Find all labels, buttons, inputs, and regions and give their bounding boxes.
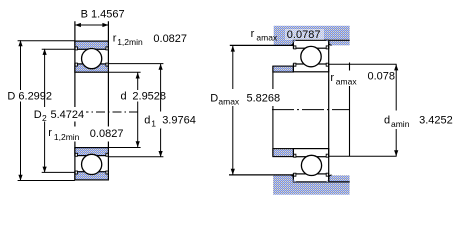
shaft shoulder strip top <box>273 66 294 72</box>
svg-text:0.0787: 0.0787 <box>287 29 321 41</box>
arrow D bottom <box>18 175 22 181</box>
svg-text:amin: amin <box>391 119 410 129</box>
housing block bottom <box>273 175 350 194</box>
d1 extension top <box>108 63 163 65</box>
svg-text:1: 1 <box>151 119 156 129</box>
svg-text:0.0827: 0.0827 <box>153 33 187 45</box>
housing seat line bottom <box>294 181 350 183</box>
chamfer corner bottom-left (blue showing) <box>293 179 296 182</box>
seal notch inner-left <box>75 63 77 66</box>
seal notch inner-left bottom <box>75 153 77 156</box>
fillet ra top-left <box>290 42 293 45</box>
dimension D2 line <box>44 49 46 173</box>
svg-text:amax: amax <box>218 97 240 107</box>
arrow d1 top <box>159 64 163 70</box>
ball top section <box>82 49 102 69</box>
chamfer corner top-right (blue showing) <box>326 40 329 43</box>
arrow d1 bottom <box>159 151 163 157</box>
bearing outer ring bottom (right fig) <box>293 174 328 182</box>
D2 extension top <box>42 48 75 50</box>
housing block top <box>274 26 350 46</box>
seal notch <box>294 63 296 66</box>
svg-text:3.4252: 3.4252 <box>419 114 453 126</box>
d1 extension bottom <box>108 156 163 158</box>
svg-text:d: d <box>384 114 390 126</box>
dimension d line <box>137 73 139 148</box>
housing shoulder line bottom / Da extension <box>229 174 294 176</box>
housing shoulder line top / Da extension <box>230 44 294 46</box>
svg-text:D: D <box>34 109 42 121</box>
dimension d1 line <box>160 64 162 157</box>
chamfer corner bottom-right (blue showing) <box>326 179 329 182</box>
svg-text:D: D <box>210 92 218 104</box>
D extension bottom <box>18 180 75 182</box>
ball bottom (right fig) <box>301 155 321 175</box>
seal notch outer-right bottom <box>106 171 108 174</box>
arrow da bottom <box>394 150 398 156</box>
svg-text:d: d <box>144 114 150 126</box>
svg-text:3.9764: 3.9764 <box>162 114 196 126</box>
bearing right face line (right fig) <box>328 40 330 182</box>
svg-text:d: d <box>121 91 127 103</box>
svg-text:r: r <box>330 72 334 84</box>
svg-text:amax: amax <box>256 32 278 42</box>
svg-text:0.0827: 0.0827 <box>90 128 124 140</box>
bearing inner ring bottom (right fig) <box>293 149 328 157</box>
svg-text:2.9528: 2.9528 <box>132 91 166 103</box>
arrow Da top <box>231 46 235 52</box>
inner ring bottom section <box>75 148 109 156</box>
seal notch outer-left bottom <box>75 171 77 174</box>
arrow B left <box>75 23 81 27</box>
svg-text:5.4724: 5.4724 <box>51 109 85 121</box>
svg-text:0.078: 0.078 <box>368 70 396 82</box>
seal notch outer-left <box>75 47 77 50</box>
svg-text:5.8268: 5.8268 <box>247 92 281 104</box>
svg-text:1,2min: 1,2min <box>54 132 80 142</box>
seal notch <box>326 46 328 49</box>
ball top (right fig) <box>301 46 321 66</box>
D2 extension bottom <box>42 171 75 173</box>
centerline right figure <box>272 109 350 111</box>
svg-text:r: r <box>251 28 255 40</box>
fillet ra bottom-right <box>329 175 332 178</box>
bearing inner ring top (right fig) <box>293 64 328 72</box>
seal notch <box>326 154 328 157</box>
bearing face line right <box>107 21 109 180</box>
seal notch <box>294 173 296 176</box>
d extension top <box>108 71 140 73</box>
arrow d top <box>136 73 140 79</box>
seal notch <box>294 46 296 49</box>
d extension bottom <box>108 147 140 149</box>
housing seat line top <box>293 39 349 41</box>
arrow B right <box>102 23 108 27</box>
outer ring top section <box>75 41 109 49</box>
seal notch <box>326 173 328 176</box>
dimension B line <box>75 24 109 26</box>
shaft end line right <box>349 63 351 157</box>
svg-text:r: r <box>113 33 117 45</box>
bearing face line left <box>74 21 76 180</box>
dimension da line <box>395 64 397 156</box>
svg-text:r: r <box>48 127 52 139</box>
seal notch outer-right <box>106 47 108 50</box>
da extension bottom <box>329 155 397 157</box>
D extension top <box>18 40 75 42</box>
svg-text:amax: amax <box>336 77 358 87</box>
inner ring top section <box>75 64 109 72</box>
svg-text:B 1.4567: B 1.4567 <box>81 8 125 20</box>
outer ring bottom section <box>75 172 109 180</box>
da extension top <box>329 63 397 65</box>
svg-text:2: 2 <box>42 113 47 123</box>
seal notch <box>326 63 328 66</box>
seal notch <box>294 154 296 157</box>
seal notch inner-right bottom <box>106 153 108 156</box>
ball bottom section <box>82 154 102 174</box>
bearing outer ring top (right fig) <box>293 40 328 48</box>
arrow Da bottom <box>231 169 235 175</box>
svg-text:D 6.2992: D 6.2992 <box>7 90 52 102</box>
shaft shoulder strip bottom <box>273 149 294 157</box>
seal notch inner-right <box>106 63 108 66</box>
svg-text:1,2min: 1,2min <box>117 37 143 47</box>
shaft end line left <box>272 66 274 157</box>
chamfer corner top-left (blue showing) <box>293 40 296 43</box>
arrow D top <box>18 40 22 46</box>
fillet ra bottom-left <box>290 175 293 178</box>
dimension Da line <box>232 46 234 175</box>
fillet ra top-right <box>329 42 332 45</box>
centerline left figure <box>63 111 140 113</box>
arrow D2 bottom <box>43 167 47 173</box>
dimension D line <box>20 40 22 180</box>
arrow d bottom <box>136 141 140 147</box>
arrow da top <box>394 64 398 70</box>
arrow D2 top <box>43 49 47 55</box>
